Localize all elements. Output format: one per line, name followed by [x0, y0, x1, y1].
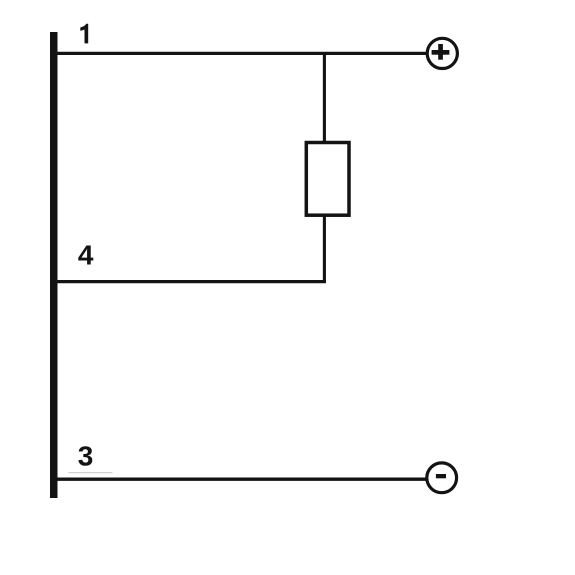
wire (branch from node on wire 1 down to resistor top) [323, 53, 326, 142]
minus sign [436, 474, 446, 478]
bus bar (terminal strip) [50, 32, 58, 498]
wire 4 (pin 4 to corner under resistor) [55, 280, 326, 283]
resistor R1 (IEC box symbol) [306, 143, 349, 216]
plus sign [432, 44, 450, 60]
wire (resistor bottom down to wire 4 corner) [323, 215, 326, 282]
wire 1 (pin 1 to + terminal) [55, 52, 427, 55]
svg-text:4: 4 [78, 240, 94, 271]
svg-text:3: 3 [78, 441, 94, 472]
terminal - (negative supply circle) [427, 463, 457, 493]
terminal + (positive supply circle) [427, 38, 457, 68]
faint underline artifact below label 3 [69, 472, 113, 474]
wire 3 (pin 3 to - terminal) [55, 478, 427, 481]
pin label 1 [80, 24, 88, 44]
